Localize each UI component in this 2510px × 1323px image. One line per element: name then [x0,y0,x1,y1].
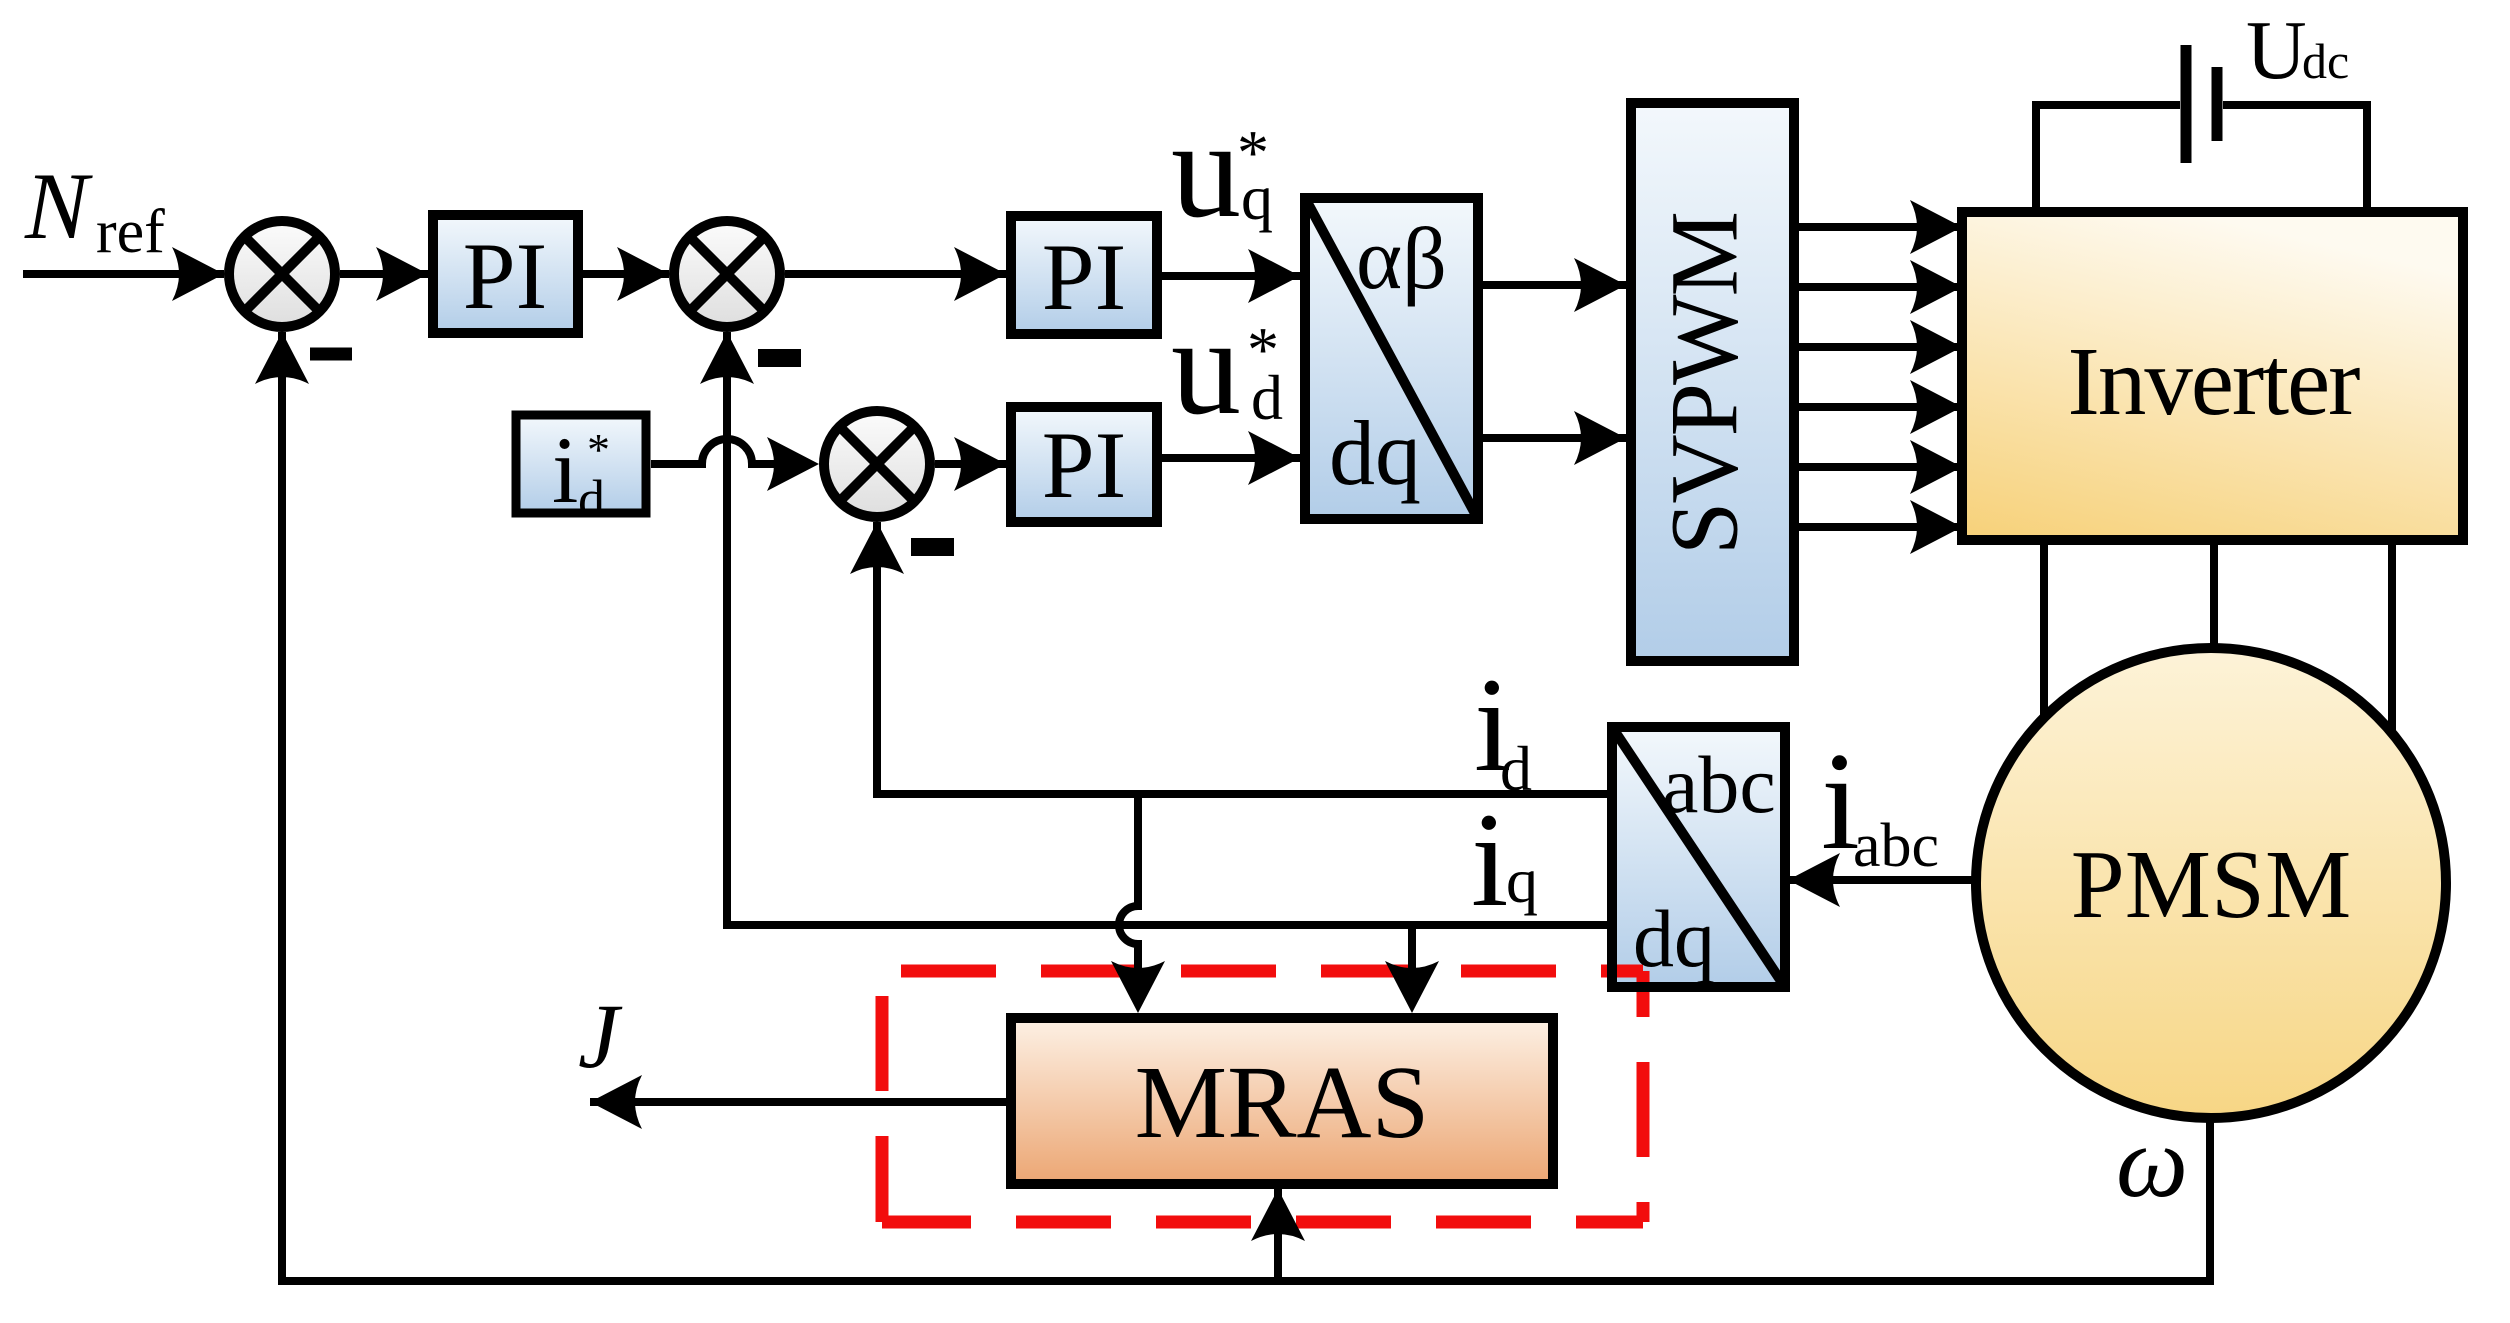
svg-text:αβ: αβ [1356,211,1447,308]
svg-text:d: d [1251,362,1283,433]
svg-text:*: * [587,424,610,475]
svg-text:q: q [1506,845,1538,916]
svg-text:PMSM: PMSM [2071,831,2351,938]
svg-text:ω: ω [2116,1106,2188,1219]
svg-text:ref: ref [96,198,165,266]
svg-text:PI: PI [463,223,547,329]
svg-text:J: J [578,985,623,1087]
svg-text:N: N [24,153,93,259]
svg-text:U: U [2246,4,2307,97]
svg-text:PI: PI [1042,224,1126,330]
svg-text:Inverter: Inverter [2068,328,2361,435]
svg-text:dq: dq [1633,893,1715,984]
svg-text:dq: dq [1329,402,1421,504]
svg-text:SVPWM: SVPWM [1651,213,1758,555]
svg-text:q: q [1241,162,1273,233]
svg-text:abc: abc [1662,739,1776,830]
svg-text:i: i [552,417,578,523]
svg-text:u: u [1171,92,1241,247]
svg-text:MRAS: MRAS [1135,1045,1430,1160]
svg-text:i: i [1471,786,1509,935]
svg-text:u: u [1171,289,1241,444]
svg-text:abc: abc [1853,812,1939,880]
svg-text:dc: dc [2302,33,2349,89]
svg-text:d: d [578,469,605,529]
svg-text:PI: PI [1042,412,1126,518]
